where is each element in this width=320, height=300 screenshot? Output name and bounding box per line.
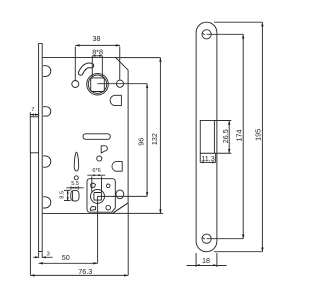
svg-text:76.3: 76.3 bbox=[78, 267, 92, 276]
strike dim 18 bbox=[187, 253, 227, 267]
svg-text:7: 7 bbox=[31, 107, 34, 113]
arrows 8*8 bbox=[92, 55, 95, 57]
dim 96 extension top (hub centre to line) bbox=[98, 83, 148, 85]
dim 96 extension bottom bbox=[98, 195, 148, 197]
arrows 8.5 (outside) bbox=[67, 190, 69, 193]
faceplate (edge view, 3mm strip) bbox=[39, 44, 43, 252]
curved slot top-left (banana) bbox=[81, 65, 92, 73]
dim 96 line bbox=[146, 84, 148, 197]
dim 6*6 bbox=[87, 175, 105, 192]
spindle hub outer ring bbox=[87, 73, 109, 95]
dim 8.5 bbox=[64, 190, 70, 200]
WC follower plate bbox=[87, 179, 115, 213]
arrows 195 bbox=[261, 22, 263, 26]
dim 132 extension bottom (case bottom edge) bbox=[113, 212, 164, 214]
dim 76.3 extensions bbox=[30, 153, 128, 275]
dim 5.5 bbox=[66, 186, 83, 190]
stadium slot bbox=[83, 134, 110, 140]
strike dim 11.3 box bbox=[200, 153, 215, 162]
dimension lines (thin) bbox=[30, 22, 262, 275]
arrows 50 bbox=[39, 262, 43, 264]
arrows 18 (outside) bbox=[196, 264, 200, 266]
case fixing tab T2 bbox=[43, 107, 50, 116]
svg-text:174: 174 bbox=[234, 130, 243, 142]
arrows 132 bbox=[159, 58, 161, 62]
arrows 174 bbox=[242, 34, 244, 38]
plate tab upper-left bbox=[91, 183, 96, 188]
left handle screw hole bbox=[72, 81, 79, 88]
D cutout upper bbox=[110, 95, 121, 105]
svg-text:96: 96 bbox=[136, 138, 145, 146]
svg-text:8.5: 8.5 bbox=[60, 191, 66, 199]
arrows 11.3 (outside) bbox=[200, 161, 203, 163]
strike dim 26.5 bbox=[214, 121, 231, 154]
svg-text:195: 195 bbox=[253, 129, 262, 141]
spindle square 8x8 bbox=[91, 78, 105, 92]
arrowheads bbox=[30, 22, 263, 276]
arrows 6*6 (outside) bbox=[92, 174, 95, 176]
teardrop lever bbox=[74, 152, 78, 171]
svg-text:50: 50 bbox=[62, 253, 70, 262]
case fixing tab T4 bbox=[43, 197, 50, 208]
dim 132 line bbox=[159, 58, 161, 214]
dim 50 extension (hub centre down) bbox=[97, 196, 99, 263]
svg-text:18: 18 bbox=[202, 256, 210, 265]
dim 38 bbox=[75, 45, 120, 80]
dim 50 line bbox=[39, 262, 98, 264]
arrows 96 bbox=[146, 84, 148, 88]
svg-text:6*6: 6*6 bbox=[92, 168, 100, 174]
WC square 6x6 bbox=[94, 193, 102, 201]
arrows 7 bbox=[30, 114, 34, 116]
strike plate latch cutout bbox=[200, 120, 214, 153]
latch bolt box protruding left bbox=[30, 117, 38, 153]
plate tab lower-left bbox=[90, 206, 95, 210]
dim 8*8 extension lines bbox=[92, 56, 102, 77]
svg-text:11.3: 11.3 bbox=[201, 154, 214, 163]
small circle mid bbox=[97, 156, 102, 161]
WC hub circle bbox=[91, 189, 105, 203]
dimension texts bbox=[31, 34, 262, 276]
svg-text:5.5: 5.5 bbox=[71, 181, 79, 187]
dim 3 bbox=[33, 252, 52, 258]
plate screw hole lower bbox=[106, 205, 111, 210]
strike plate screw hole top bbox=[202, 30, 211, 39]
strike plate outline bbox=[196, 22, 217, 252]
svg-text:26.5: 26.5 bbox=[221, 129, 230, 143]
strike plate screw hole bottom bbox=[202, 234, 211, 243]
arrows 3 (outside) bbox=[35, 256, 39, 258]
case fixing tab T1 bbox=[43, 66, 50, 77]
case fixing tab T3 bbox=[43, 156, 50, 167]
dim 7 bbox=[30, 112, 38, 116]
right handle screw hole bbox=[116, 80, 123, 87]
dim 132 extension top (case top edge) bbox=[116, 57, 161, 59]
arrows 26.5 bbox=[228, 121, 230, 125]
lock case outline bbox=[42, 58, 128, 214]
arrows 5.5 (outside) bbox=[71, 187, 74, 189]
arrows 38 bbox=[75, 44, 79, 46]
arrows 76.3 bbox=[30, 274, 34, 276]
5.5x8.5 slot bbox=[71, 190, 79, 201]
strike dim 174 bbox=[207, 34, 244, 238]
strike dim 195 bbox=[214, 22, 262, 252]
small flag shape bbox=[101, 146, 107, 153]
svg-text:132: 132 bbox=[150, 133, 159, 145]
dim 76.3 line bbox=[30, 274, 128, 276]
svg-text:38: 38 bbox=[93, 34, 101, 43]
oval hole right of plate bbox=[116, 190, 124, 199]
svg-text:3: 3 bbox=[47, 251, 50, 257]
D cutout lower bbox=[112, 162, 122, 172]
plate screw hole upper bbox=[106, 184, 110, 188]
svg-text:8*8: 8*8 bbox=[92, 48, 103, 57]
small circle above 5.5 slot bbox=[74, 176, 78, 180]
spindle hub inner ring bbox=[88, 75, 106, 93]
